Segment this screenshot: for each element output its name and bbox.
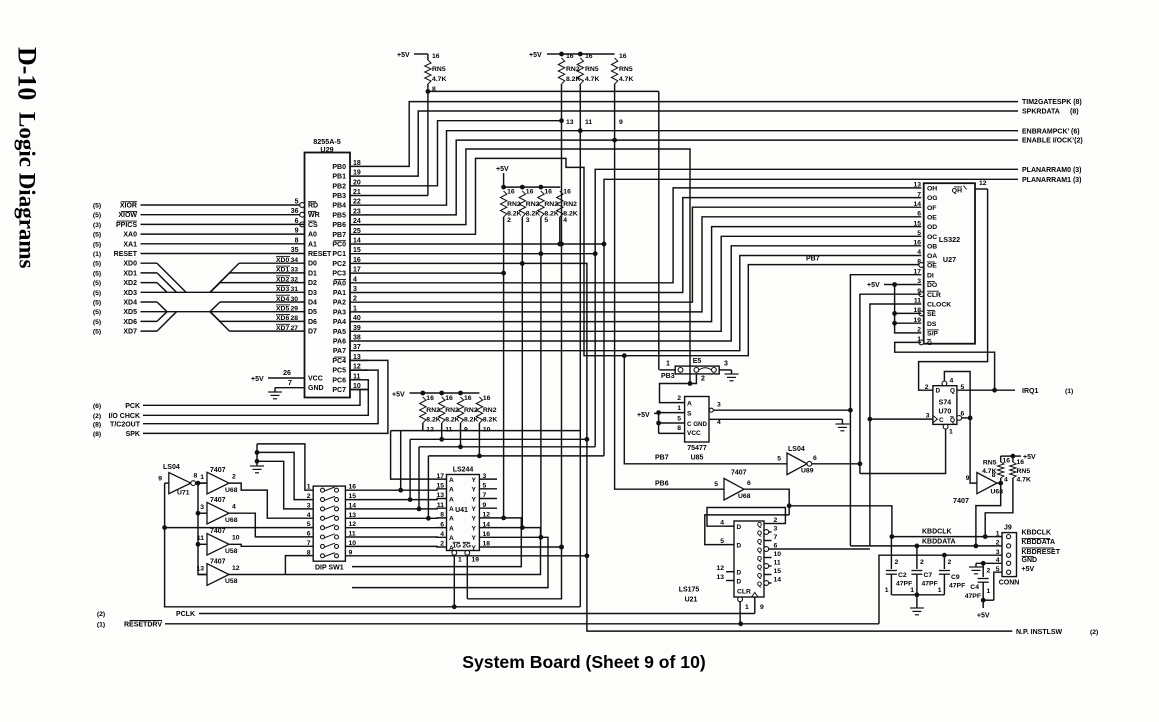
svg-text:PC1: PC1 xyxy=(332,251,346,258)
U29 input bubbles xyxy=(300,203,305,208)
svg-text:(2): (2) xyxy=(93,413,101,420)
svg-text:75477: 75477 xyxy=(687,445,707,452)
svg-text:C GND: C GND xyxy=(687,421,707,428)
svg-text:2: 2 xyxy=(895,559,899,566)
svg-text:IRQ1: IRQ1 xyxy=(1022,388,1038,395)
svg-text:2: 2 xyxy=(307,493,311,500)
svg-text:(5): (5) xyxy=(93,212,101,219)
mid row 446 xyxy=(419,446,595,448)
resistor RN5 4.7K to KBDCLK xyxy=(1010,462,1016,478)
svg-text:7: 7 xyxy=(774,534,778,541)
wire KBDRESET row from RESETDRV xyxy=(879,555,1002,624)
svg-text:U68: U68 xyxy=(225,487,238,494)
wire DIP pin8 row xyxy=(285,556,313,575)
svg-text:16: 16 xyxy=(563,189,571,196)
wire PB1 to SPKRDATA xyxy=(368,111,1018,176)
svg-text:QH: QH xyxy=(952,188,962,195)
svg-text:16: 16 xyxy=(1003,458,1011,465)
svg-text:U71: U71 xyxy=(177,490,190,497)
wire DIP pin2 ground row xyxy=(257,452,313,499)
wire E5 pin1 xyxy=(660,369,676,371)
svg-text:XD2: XD2 xyxy=(123,280,137,287)
svg-text:6: 6 xyxy=(440,521,444,528)
svg-text:KBDCLK: KBDCLK xyxy=(1022,530,1052,537)
resistor RN5 4.7K on U68 output xyxy=(998,481,1003,486)
svg-text:8: 8 xyxy=(194,473,198,480)
svg-text:RD: RD xyxy=(308,203,318,210)
svg-text:U27: U27 xyxy=(943,255,956,264)
svg-text:RN2: RN2 xyxy=(507,201,521,208)
svg-text:2G: 2G xyxy=(463,543,472,550)
svg-text:47PF: 47PF xyxy=(965,593,981,600)
svg-text:D5: D5 xyxy=(308,309,317,316)
svg-text:3: 3 xyxy=(717,402,721,409)
IC U29 8255A-5 body xyxy=(305,153,351,398)
svg-text:C2: C2 xyxy=(898,572,907,579)
svg-text:WR: WR xyxy=(308,212,320,219)
svg-text:A: A xyxy=(449,525,454,532)
svg-text:(5): (5) xyxy=(93,241,101,248)
XD bus crossover wires xyxy=(141,262,158,264)
svg-text:DI: DI xyxy=(927,272,934,279)
wire PB6 riser row xyxy=(368,149,690,384)
wire PC3 row xyxy=(368,272,504,274)
wire KBDCLK row xyxy=(892,536,1002,538)
U70 preset bubble pin 4 xyxy=(942,381,947,386)
svg-text:2: 2 xyxy=(925,384,929,391)
svg-text:PB6: PB6 xyxy=(332,222,346,229)
mid row 430 xyxy=(391,430,581,432)
svg-text:RESET: RESET xyxy=(308,251,332,258)
svg-text:2: 2 xyxy=(677,395,681,402)
svg-text:(3): (3) xyxy=(93,222,101,229)
svg-text:28: 28 xyxy=(291,315,299,322)
svg-text:10: 10 xyxy=(232,535,240,542)
wire PCLK row to U21 pin9 xyxy=(199,613,755,615)
svg-text:S74: S74 xyxy=(939,400,952,407)
svg-text:PB3: PB3 xyxy=(661,373,675,380)
svg-text:16: 16 xyxy=(464,395,472,402)
svg-text:RN5: RN5 xyxy=(1017,468,1031,475)
svg-text:4: 4 xyxy=(232,504,236,511)
wire U41 Y7 row xyxy=(479,498,497,500)
svg-text:3: 3 xyxy=(200,504,204,511)
svg-text:XD4: XD4 xyxy=(123,300,137,307)
svg-text:4.7K: 4.7K xyxy=(585,76,599,83)
svg-text:U89: U89 xyxy=(801,468,814,475)
svg-text:PA5: PA5 xyxy=(333,329,346,336)
svg-text:1: 1 xyxy=(200,474,204,481)
svg-text:LS322: LS322 xyxy=(939,235,960,244)
svg-text:Q: Q xyxy=(757,581,762,588)
svg-text:5: 5 xyxy=(307,521,311,528)
svg-text:RN2: RN2 xyxy=(544,201,558,208)
wire PB7 riser and staircase to LS322 OE xyxy=(368,158,921,355)
svg-text:Y: Y xyxy=(472,545,477,552)
wire U41 Y16 wrap xyxy=(352,537,548,587)
wire PC4 to SPK xyxy=(143,360,388,433)
svg-text:+5V: +5V xyxy=(529,52,542,59)
wire U21 pin6 to keyboard data xyxy=(772,548,870,550)
svg-text:U21: U21 xyxy=(685,597,698,604)
svg-text:D: D xyxy=(737,524,742,531)
svg-text:OD: OD xyxy=(927,224,937,231)
svg-text:5: 5 xyxy=(544,217,548,224)
svg-text:KBDCLK: KBDCLK xyxy=(922,528,952,535)
svg-text:PB5: PB5 xyxy=(332,212,346,219)
svg-text:XD1: XD1 xyxy=(276,267,289,274)
wire U41 Y18 row xyxy=(479,546,561,548)
svg-text:13: 13 xyxy=(436,492,444,499)
svg-text:RN2: RN2 xyxy=(426,407,440,414)
svg-text:Q: Q xyxy=(757,547,762,554)
svg-text:XIOR: XIOR xyxy=(120,203,137,210)
svg-text:PPICS: PPICS xyxy=(116,222,137,229)
wire U41 A17 from mid row xyxy=(391,431,447,480)
svg-text:D0: D0 xyxy=(308,261,317,268)
svg-text:Y: Y xyxy=(472,516,477,523)
svg-text:16: 16 xyxy=(585,53,593,60)
wire U58 pin10 output to DIP pin7 xyxy=(229,544,313,546)
svg-text:7407: 7407 xyxy=(731,470,747,477)
wire U21 pin2 to pin4 feedback xyxy=(707,508,785,527)
svg-text:5: 5 xyxy=(917,230,921,237)
svg-text:+5V: +5V xyxy=(1022,566,1035,573)
wires PA0-PA7 to LS322 OH..OA xyxy=(368,188,921,283)
connector J9 xyxy=(1002,533,1017,577)
svg-text:13: 13 xyxy=(716,574,724,581)
svg-text:RN2: RN2 xyxy=(526,201,540,208)
svg-text:GND: GND xyxy=(1022,557,1038,564)
svg-text:System Board (Sheet 9 of 10): System Board (Sheet 9 of 10) xyxy=(462,652,705,672)
svg-text:U85: U85 xyxy=(691,455,704,462)
svg-text:XD7: XD7 xyxy=(123,329,137,336)
svg-text:RN2: RN2 xyxy=(566,66,580,73)
svg-text:1: 1 xyxy=(949,429,953,436)
svg-text:D: D xyxy=(737,542,742,549)
svg-text:T/C2OUT: T/C2OUT xyxy=(110,421,141,428)
svg-text:U70: U70 xyxy=(938,409,951,416)
svg-text:Q: Q xyxy=(757,530,762,537)
svg-text:XD5: XD5 xyxy=(123,309,137,316)
wire U68 pin2 output to DIP pin4 xyxy=(229,483,313,518)
svg-text:11: 11 xyxy=(585,119,592,126)
svg-text:(5): (5) xyxy=(93,232,101,239)
svg-text:DS: DS xyxy=(927,321,937,328)
wire U41 1G to bottom row xyxy=(453,555,455,607)
svg-text:KBDDATA: KBDDATA xyxy=(1022,539,1056,546)
svg-text:U58: U58 xyxy=(225,548,238,555)
svg-text:+5V: +5V xyxy=(1023,454,1036,461)
svg-text:A: A xyxy=(449,487,454,494)
svg-text:11: 11 xyxy=(197,535,204,542)
svg-text:OF: OF xyxy=(927,205,936,212)
svg-text:7407: 7407 xyxy=(210,497,226,504)
svg-text:D: D xyxy=(737,578,742,585)
svg-text:+5V: +5V xyxy=(397,52,410,59)
IC U70 S74 body xyxy=(933,386,957,425)
svg-text:TIM2GATESPK (8): TIM2GATESPK (8) xyxy=(1022,99,1082,106)
svg-text:14: 14 xyxy=(913,201,921,208)
svg-text:PB7: PB7 xyxy=(332,232,346,239)
svg-text:4.7K: 4.7K xyxy=(1017,477,1031,484)
svg-text:CLOCK: CLOCK xyxy=(927,302,951,309)
svg-text:1: 1 xyxy=(938,587,942,594)
svg-text:Q: Q xyxy=(757,521,762,528)
svg-text:XD7: XD7 xyxy=(276,325,289,332)
svg-text:(5): (5) xyxy=(93,280,101,287)
svg-text:5: 5 xyxy=(714,481,718,488)
switch DIP SW1 body xyxy=(313,486,345,561)
svg-text:8.2K: 8.2K xyxy=(464,417,478,424)
U21 D input pins xyxy=(726,525,734,527)
capacitor C4 47PF xyxy=(982,563,984,577)
svg-text:4.7K: 4.7K xyxy=(432,76,446,83)
svg-text:7407: 7407 xyxy=(210,467,226,474)
svg-text:33: 33 xyxy=(291,267,299,274)
svg-text:2: 2 xyxy=(507,217,511,224)
svg-text:VCC: VCC xyxy=(308,376,323,383)
svg-text:12: 12 xyxy=(716,565,724,572)
svg-text:Y: Y xyxy=(472,487,477,494)
svg-text:8: 8 xyxy=(307,549,311,556)
svg-text:4: 4 xyxy=(440,531,444,538)
svg-text:1: 1 xyxy=(666,361,670,368)
svg-text:4: 4 xyxy=(950,378,954,385)
svg-text:(8): (8) xyxy=(1070,109,1079,116)
svg-text:9: 9 xyxy=(619,119,623,126)
svg-text:PB1: PB1 xyxy=(332,174,346,181)
wire U70 clock pin 3 xyxy=(870,418,933,420)
svg-text:D1: D1 xyxy=(308,270,317,277)
svg-text:5: 5 xyxy=(777,456,781,463)
svg-text:E5: E5 xyxy=(693,358,702,365)
svg-text:3: 3 xyxy=(526,217,530,224)
wire PB3 pull-up row to E5 xyxy=(428,90,659,92)
svg-text:8: 8 xyxy=(677,425,681,432)
svg-text:15: 15 xyxy=(774,568,782,575)
svg-text:6: 6 xyxy=(747,480,751,487)
svg-text:GND: GND xyxy=(308,385,324,392)
wire E5 pin2 to 75477 A xyxy=(660,374,697,403)
svg-text:A: A xyxy=(449,506,454,513)
svg-text:DIP SW1: DIP SW1 xyxy=(315,565,344,572)
svg-text:PA3: PA3 xyxy=(333,309,346,316)
svg-text:PC7: PC7 xyxy=(332,387,346,394)
svg-text:VCC: VCC xyxy=(687,430,701,437)
wire PB4 to ENBRAMPCK xyxy=(368,131,1018,206)
svg-text:(5): (5) xyxy=(93,290,101,297)
svg-text:PCLK: PCLK xyxy=(176,611,195,618)
svg-text:D2: D2 xyxy=(308,280,317,287)
wire RN2 pin13 lead down to PB2 top row xyxy=(561,84,563,121)
svg-text:(8): (8) xyxy=(93,431,101,438)
wire U27 QH to U70 D xyxy=(919,189,988,390)
svg-text:9: 9 xyxy=(760,604,764,611)
svg-text:5: 5 xyxy=(677,416,681,423)
svg-text:19: 19 xyxy=(472,557,480,564)
svg-text:34: 34 xyxy=(291,257,299,264)
svg-text:4.7K: 4.7K xyxy=(619,76,633,83)
U29 GND pin 7 with ground symbol xyxy=(275,387,305,389)
svg-text:3: 3 xyxy=(307,502,311,509)
svg-text:7407: 7407 xyxy=(210,558,226,565)
svg-text:RN5: RN5 xyxy=(619,66,633,73)
svg-text:(2): (2) xyxy=(97,611,105,618)
wire keyboard data to U27 DI xyxy=(850,275,921,546)
svg-text:PB6: PB6 xyxy=(655,481,669,488)
svg-text:A: A xyxy=(449,535,454,542)
svg-text:PB2: PB2 xyxy=(332,183,346,190)
svg-text:XD3: XD3 xyxy=(123,290,137,297)
svg-text:XD0: XD0 xyxy=(123,261,137,268)
svg-text:(5): (5) xyxy=(93,261,101,268)
U70 Q output and IRQ1 xyxy=(957,389,1015,391)
svg-text:Q: Q xyxy=(757,564,762,571)
svg-text:PA6: PA6 xyxy=(333,339,346,346)
svg-text:XD4: XD4 xyxy=(276,296,289,303)
svg-text:1: 1 xyxy=(987,588,991,595)
svg-text:XD6: XD6 xyxy=(276,315,289,322)
svg-text:OH: OH xyxy=(927,186,937,193)
svg-text:Q: Q xyxy=(757,538,762,545)
svg-text:1: 1 xyxy=(745,604,749,611)
svg-text:ENABLE I/OCK’(2): ENABLE I/OCK’(2) xyxy=(1022,138,1083,145)
svg-text:RN2: RN2 xyxy=(483,407,497,414)
svg-text:PC4: PC4 xyxy=(332,358,346,365)
svg-text:CONN: CONN xyxy=(999,580,1020,587)
svg-text:RN2: RN2 xyxy=(445,407,459,414)
svg-text:2: 2 xyxy=(440,541,444,548)
wires DIP SW1 outputs to U41 A inputs xyxy=(345,489,446,490)
svg-text:(8): (8) xyxy=(93,421,101,428)
svg-text:XIOW: XIOW xyxy=(118,212,137,219)
svg-text:RESETDRV: RESETDRV xyxy=(124,621,162,628)
svg-text:7407: 7407 xyxy=(953,496,969,505)
wire KBDDATA row xyxy=(850,545,1002,547)
svg-text:S: S xyxy=(687,411,692,418)
svg-text:2: 2 xyxy=(948,559,952,566)
XD pin-side labels xyxy=(239,262,305,264)
svg-text:SE: SE xyxy=(927,311,937,318)
svg-text:7: 7 xyxy=(917,191,921,198)
svg-text:12: 12 xyxy=(232,565,240,572)
wire PLANARRAM1 from PC0 xyxy=(368,179,1018,244)
svg-text:16: 16 xyxy=(913,240,921,247)
wire U68 output to keyboard clock xyxy=(744,489,892,536)
wire DIP pin3 ground row xyxy=(257,461,313,509)
wire U21 pin5 bracket xyxy=(705,515,789,545)
wire PLANARRAM0 from PC1 xyxy=(368,169,1018,253)
svg-text:16: 16 xyxy=(426,395,434,402)
svg-text:Y: Y xyxy=(472,525,477,532)
svg-text:3: 3 xyxy=(774,526,778,533)
wires RN2 cluster to mid rows xyxy=(422,423,424,431)
IC U85 75477 body xyxy=(685,397,709,443)
svg-text:PCK: PCK xyxy=(125,403,140,410)
wire U89 output to CLR nets xyxy=(812,463,860,465)
svg-text:XD0: XD0 xyxy=(276,257,289,264)
svg-text:6: 6 xyxy=(813,455,817,462)
svg-text:6: 6 xyxy=(917,211,921,218)
svg-text:N.P. INSTLSW: N.P. INSTLSW xyxy=(1016,629,1063,636)
svg-text:8.2K: 8.2K xyxy=(566,76,580,83)
wire capacitor common to ground xyxy=(891,594,944,596)
wire U27 G gate from U70 Q xyxy=(895,342,995,390)
svg-text:14: 14 xyxy=(774,577,782,584)
svg-text:1G: 1G xyxy=(453,543,462,550)
svg-text:2: 2 xyxy=(232,473,236,480)
wire U68 output down to KBDDATA row xyxy=(976,483,1001,546)
wire 75477 Y output pin 3 xyxy=(709,408,713,412)
svg-text:A: A xyxy=(449,516,454,523)
wire PB5 to ENABLE I/OCK xyxy=(368,140,1018,215)
wire E5 pin3 to ground xyxy=(719,369,731,371)
svg-text:(5): (5) xyxy=(93,319,101,326)
wire U58 pin12 output to Y14 riser xyxy=(229,528,540,575)
svg-text:C9: C9 xyxy=(951,574,960,581)
svg-text:RN2: RN2 xyxy=(464,407,478,414)
wire U41 Y5 row xyxy=(479,488,497,490)
svg-text:15: 15 xyxy=(913,220,921,227)
svg-text:CS: CS xyxy=(308,222,318,229)
capacitor C7 47PF xyxy=(916,546,918,569)
wire PB0 to TIM2GATESPK xyxy=(368,102,1018,167)
wire C4 to +5V label xyxy=(982,600,984,608)
svg-text:Y: Y xyxy=(472,477,477,484)
svg-text:PA1: PA1 xyxy=(333,290,346,297)
wire PB7 into U89 xyxy=(624,356,787,464)
DIP SW1 switch elements and pin numbers xyxy=(321,488,325,492)
svg-text:XA0: XA0 xyxy=(123,232,137,239)
capacitor C9 47PF xyxy=(943,555,945,569)
wire RN2 pin2 lead to PC3 and Y12 xyxy=(503,217,505,518)
svg-text:4: 4 xyxy=(717,419,721,426)
svg-text:(2): (2) xyxy=(1090,629,1098,636)
svg-text:XD3: XD3 xyxy=(276,286,289,293)
svg-text:4: 4 xyxy=(917,249,921,256)
svg-text:XD1: XD1 xyxy=(123,270,137,277)
svg-text:A: A xyxy=(449,477,454,484)
svg-text:7: 7 xyxy=(307,540,311,547)
svg-text:G: G xyxy=(927,340,932,347)
svg-text:4: 4 xyxy=(307,512,311,519)
svg-text:D: D xyxy=(737,570,742,577)
wire RN2 pin3 lead to PC2 and Y14 xyxy=(521,217,523,528)
svg-text:PA4: PA4 xyxy=(333,319,346,326)
svg-text:31: 31 xyxy=(291,286,299,293)
svg-text:2: 2 xyxy=(701,376,705,383)
wire U27 CLR from U89 xyxy=(860,294,921,464)
svg-text:OE: OE xyxy=(927,263,937,270)
node PB3 pull-up junction xyxy=(426,89,431,94)
wire U41 2G row xyxy=(466,555,468,599)
svg-text:S/P: S/P xyxy=(927,331,938,338)
pull-up risers onto DIP rows xyxy=(400,431,402,491)
wire PB2 riser to pulled-up row xyxy=(368,121,562,186)
svg-text:29: 29 xyxy=(291,306,299,313)
svg-text:XA1: XA1 xyxy=(123,241,137,248)
wire DIP pin5 row xyxy=(165,527,314,529)
svg-text:1: 1 xyxy=(910,587,914,594)
wire U27 CLOCK from keyboard clock xyxy=(870,304,921,546)
IC U21 LS175 body xyxy=(734,521,764,597)
svg-text:(1): (1) xyxy=(93,251,101,258)
svg-text:PLANARRAM1 (3): PLANARRAM1 (3) xyxy=(1022,177,1082,184)
svg-text:3: 3 xyxy=(996,549,1000,556)
svg-text:11: 11 xyxy=(774,560,781,567)
svg-text:16: 16 xyxy=(526,189,534,196)
